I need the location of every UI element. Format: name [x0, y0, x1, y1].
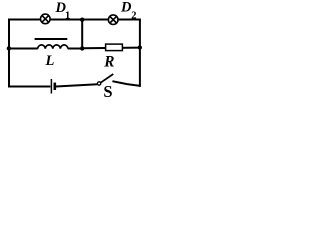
svg-text:2: 2: [131, 11, 136, 22]
svg-text:1: 1: [65, 11, 70, 22]
svg-text:S: S: [103, 82, 112, 99]
svg-text:R: R: [103, 54, 114, 71]
svg-text:L: L: [45, 53, 55, 69]
svg-text:D: D: [120, 0, 132, 16]
